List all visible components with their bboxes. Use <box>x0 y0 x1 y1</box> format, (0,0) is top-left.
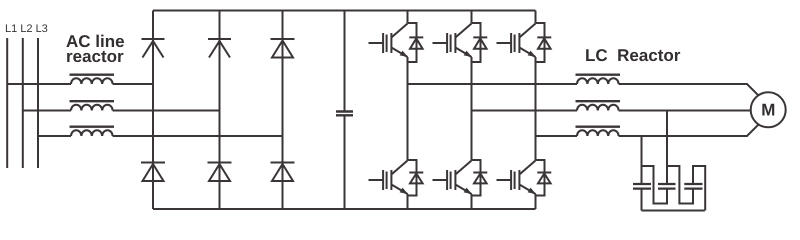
diode D2 <box>208 39 231 58</box>
rectifier leg 2 wire <box>219 11 221 210</box>
diode D1 <box>142 39 165 58</box>
motor label M <box>762 104 774 116</box>
IGBT Q2 with freewheel diode <box>433 23 488 62</box>
filter cap jog wire 1 <box>642 166 668 204</box>
label AC line reactor <box>66 35 124 47</box>
label L1 L2 L3 <box>6 24 47 32</box>
LC reactor coil 2 <box>576 101 621 110</box>
filter cap bottom lead <box>641 189 643 211</box>
wire phase R from L1 to rectifier <box>7 83 153 85</box>
DC link capacitor C1 plates <box>336 112 353 116</box>
diode D3 <box>271 39 295 58</box>
DC link capacitor lead bottom <box>344 116 346 209</box>
diode D5 <box>208 163 232 182</box>
filter cap tap wire from phase V <box>666 111 668 185</box>
filter capacitor Cf3 plates <box>684 184 702 189</box>
wire phase T from L3 to rectifier <box>38 135 283 137</box>
IGBT Q1 with freewheel diode <box>369 23 424 62</box>
label AC line reactor line2 <box>67 51 123 62</box>
filter capacitor Cf2 plates <box>658 184 676 189</box>
LC reactor coil 1 <box>576 75 621 84</box>
AC line reactor coil 3 <box>70 127 115 136</box>
diode D6 <box>271 163 295 182</box>
inverter leg W wire <box>535 11 537 210</box>
input line L2 <box>22 38 24 168</box>
IGBT Q6 with freewheel diode <box>497 160 552 196</box>
motor M circle <box>751 92 786 127</box>
LC reactor coil 3 <box>576 127 621 136</box>
DC bus negative (bottom) <box>153 208 536 210</box>
input line L1 <box>6 38 8 168</box>
IGBT Q4 with freewheel diode <box>369 160 424 196</box>
wire phase S from L2 to rectifier <box>23 110 220 112</box>
DC link capacitor lead top <box>344 11 346 112</box>
rectifier leg 1 wire <box>152 11 154 210</box>
inverter leg V wire <box>471 11 473 210</box>
filter cap jog wire 3 <box>693 166 705 211</box>
rectifier leg 3 wire <box>282 11 284 210</box>
DC bus positive (top) <box>153 10 536 12</box>
wire output phase U <box>408 84 759 95</box>
input line L3 <box>37 38 39 168</box>
filter cap jog wire 2 <box>667 166 693 204</box>
AC line reactor coil 2 <box>70 101 115 110</box>
IGBT Q3 with freewheel diode <box>497 23 552 62</box>
wire output phase W <box>536 124 759 136</box>
IGBT Q5 with freewheel diode <box>433 160 488 196</box>
diode D4 <box>141 163 165 182</box>
label LC Reactor <box>586 49 680 61</box>
filter capacitor Cf1 plates <box>633 184 651 189</box>
wire output phase V <box>472 110 751 112</box>
filter cap bottom bus <box>642 210 705 212</box>
AC line reactor coil 1 <box>70 75 115 84</box>
filter cap tap wire from phase W <box>641 136 643 184</box>
inverter leg U wire <box>407 11 409 210</box>
